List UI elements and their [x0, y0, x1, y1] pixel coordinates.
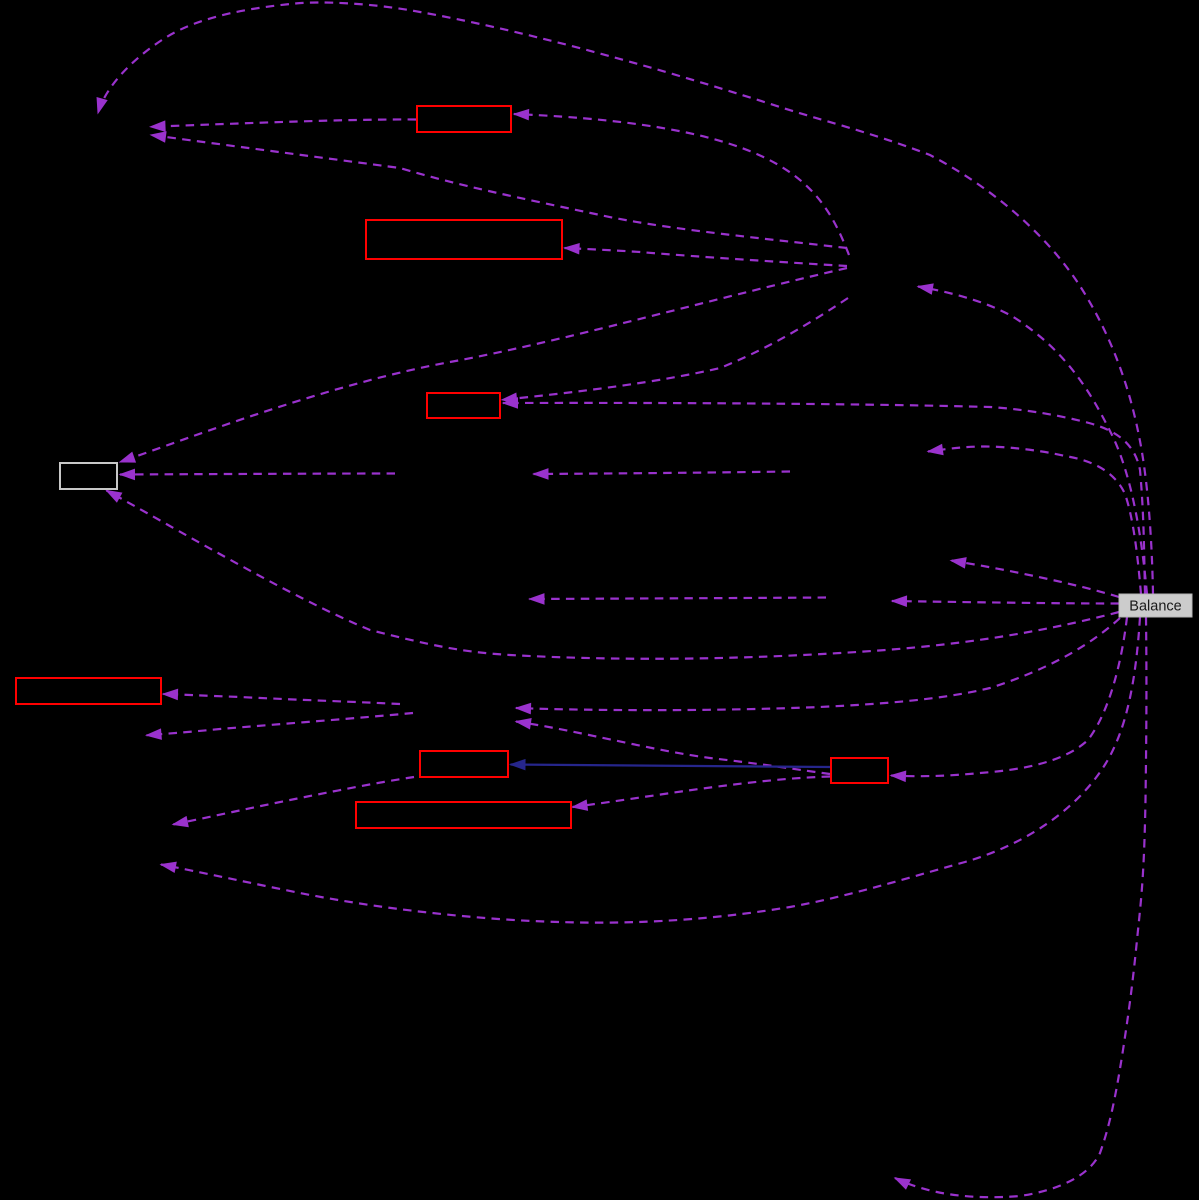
edge E4 nodeA to box1 [514, 114, 849, 255]
edge E17 box8 to nodeK lower [516, 722, 830, 775]
edge E13 Balance to nodeD [892, 601, 1119, 604]
edge E19 nodeK to nodeH [147, 713, 414, 735]
edge E7 Balance to nodeA [918, 287, 1147, 595]
edge E24 Balance to nodeM [928, 447, 1141, 595]
node box5 (red) [16, 678, 161, 704]
edge E9 nodeA to box3 (diagonal) [502, 298, 848, 400]
edge E25 box6 to nodeF [173, 777, 414, 825]
edge E18 nodeK to box5 [163, 694, 400, 704]
edge E14 nodeD to nodeI [530, 598, 827, 600]
node box8 (red) [831, 758, 888, 783]
node whitebox (gray border) [60, 463, 117, 489]
edge E3 nodeA to top-left node [151, 135, 847, 248]
node Balance (gray center node) [1119, 594, 1192, 617]
edge E23 Balance to bottom node (right trunk loop) [895, 617, 1146, 1197]
node box2 (red) [366, 220, 562, 259]
edge E1 Balance to top-left node (big top arc) [98, 3, 1153, 594]
node box7 (red) [356, 802, 571, 828]
edge E6 nodeA to whitebox top-right [120, 268, 847, 462]
edge E16 Balance to nodeK upper [516, 618, 1120, 710]
node box1 (red) [417, 106, 511, 132]
edge E21 Balance to box8 [891, 617, 1127, 776]
edge E11 to nodeG [534, 472, 791, 475]
node box3 (red) [427, 393, 500, 418]
edge E10 nodeG to whitebox [120, 474, 395, 475]
edge E15 Balance to whitebox bottom-right [107, 491, 1120, 659]
node box6 (red) [420, 751, 508, 777]
svg-text:Balance: Balance [1129, 599, 1181, 615]
edge E20 box8 to box7 [573, 777, 831, 808]
edge E8 Balance to box3 (flat line) [503, 403, 1145, 594]
edge E22 Balance to bottom-left node (big dip) [161, 617, 1140, 923]
edge E12 Balance to node N4 [951, 561, 1119, 598]
edge blue box8 to box6 (solid inheritance) [511, 765, 831, 768]
edge E5 nodeA to box2 [565, 248, 848, 266]
edge E2 box1 to top-left node [151, 119, 417, 126]
